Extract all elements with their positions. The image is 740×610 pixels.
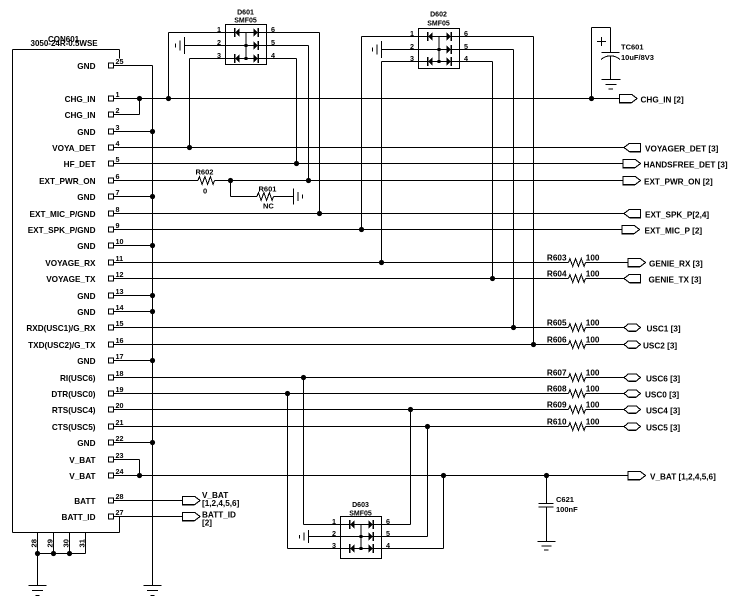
svg-text:GND: GND — [77, 62, 95, 71]
svg-text:BATT: BATT — [74, 497, 95, 506]
svg-text:USC5 [3]: USC5 [3] — [646, 424, 680, 433]
svg-text:VOYAGE_TX: VOYAGE_TX — [46, 275, 96, 284]
svg-text:CHG_IN: CHG_IN — [65, 111, 96, 120]
svg-text:CTS(USC5): CTS(USC5) — [52, 423, 96, 432]
svg-text:100: 100 — [586, 336, 600, 345]
svg-text:USC1 [3]: USC1 [3] — [647, 325, 681, 334]
svg-text:EXT_PWR_ON: EXT_PWR_ON — [39, 177, 96, 186]
svg-text:31: 31 — [78, 538, 87, 547]
svg-text:100nF: 100nF — [556, 505, 578, 514]
svg-text:V_BAT: V_BAT — [69, 472, 95, 481]
svg-text:100: 100 — [586, 401, 600, 410]
svg-text:GND: GND — [77, 128, 95, 137]
svg-text:V_BAT [1,2,4,5,6]: V_BAT [1,2,4,5,6] — [650, 473, 716, 482]
svg-text:1: 1 — [116, 90, 120, 99]
svg-text:[1,2,4,5,6]: [1,2,4,5,6] — [202, 499, 240, 508]
svg-text:10uF/8V3: 10uF/8V3 — [621, 53, 654, 62]
svg-text:1: 1 — [332, 517, 336, 526]
svg-text:5: 5 — [271, 38, 275, 47]
svg-text:3050-24R-0.5WSE: 3050-24R-0.5WSE — [31, 39, 99, 48]
svg-text:3: 3 — [217, 51, 221, 60]
svg-text:5: 5 — [386, 529, 390, 538]
svg-text:3: 3 — [410, 54, 414, 63]
svg-text:EXT_SPK_P/GND: EXT_SPK_P/GND — [28, 226, 96, 235]
svg-text:0: 0 — [203, 187, 207, 196]
svg-text:R610: R610 — [547, 418, 567, 427]
svg-text:100: 100 — [586, 418, 600, 427]
svg-text:24: 24 — [116, 467, 124, 476]
svg-text:R605: R605 — [547, 319, 567, 328]
svg-text:GENIE_TX [3]: GENIE_TX [3] — [649, 276, 702, 285]
svg-text:VOYAGE_RX: VOYAGE_RX — [45, 259, 96, 268]
svg-text:15: 15 — [116, 319, 124, 328]
svg-text:R606: R606 — [547, 336, 567, 345]
svg-text:29: 29 — [46, 539, 55, 547]
svg-text:R609: R609 — [547, 401, 567, 410]
svg-text:100: 100 — [586, 270, 600, 279]
svg-text:1: 1 — [217, 25, 221, 34]
svg-text:2: 2 — [116, 106, 120, 115]
svg-text:USC4 [3]: USC4 [3] — [646, 407, 680, 416]
svg-text:HANDSFREE_DET [3]: HANDSFREE_DET [3] — [644, 161, 728, 170]
svg-text:TC601: TC601 — [621, 43, 644, 52]
svg-text:5: 5 — [464, 42, 468, 51]
svg-text:CHG_IN [2]: CHG_IN [2] — [641, 96, 684, 105]
svg-text:USC0 [3]: USC0 [3] — [645, 391, 679, 400]
svg-text:2: 2 — [332, 529, 336, 538]
svg-text:VOYAGER_DET [3]: VOYAGER_DET [3] — [645, 145, 719, 154]
svg-text:4: 4 — [464, 54, 468, 63]
svg-text:8: 8 — [116, 205, 120, 214]
svg-text:R603: R603 — [547, 254, 567, 263]
svg-text:EXT_SPK_P[2,4]: EXT_SPK_P[2,4] — [645, 211, 709, 220]
svg-text:HF_DET: HF_DET — [64, 160, 96, 169]
svg-text:R607: R607 — [547, 369, 567, 378]
svg-text:19: 19 — [116, 385, 124, 394]
svg-text:4: 4 — [271, 51, 275, 60]
svg-text:3: 3 — [116, 123, 120, 132]
svg-text:2: 2 — [217, 38, 221, 47]
svg-text:7: 7 — [116, 188, 120, 197]
svg-text:30: 30 — [62, 539, 71, 547]
svg-text:RI(USC6): RI(USC6) — [60, 374, 96, 383]
svg-text:R604: R604 — [547, 270, 567, 279]
svg-text:GND: GND — [77, 242, 95, 251]
svg-text:100: 100 — [586, 369, 600, 378]
svg-text:6: 6 — [464, 29, 468, 38]
svg-text:12: 12 — [116, 270, 124, 279]
svg-text:14: 14 — [116, 303, 124, 312]
svg-text:25: 25 — [116, 57, 124, 66]
svg-text:16: 16 — [116, 336, 124, 345]
svg-text:GND: GND — [77, 439, 95, 448]
svg-text:4: 4 — [386, 541, 390, 550]
svg-text:17: 17 — [116, 352, 124, 361]
svg-text:D602: D602 — [430, 12, 447, 19]
svg-text:SMF05: SMF05 — [234, 18, 257, 25]
svg-text:EXT_MIC_P [2]: EXT_MIC_P [2] — [645, 227, 703, 236]
svg-text:TXD(USC2)/G_TX: TXD(USC2)/G_TX — [28, 341, 96, 350]
svg-text:R602: R602 — [196, 168, 214, 177]
svg-text:11: 11 — [116, 254, 124, 263]
svg-text:NC: NC — [263, 202, 274, 211]
svg-text:23: 23 — [116, 451, 124, 460]
svg-text:GND: GND — [77, 308, 95, 317]
svg-text:SMF05: SMF05 — [427, 21, 450, 28]
svg-text:4: 4 — [116, 139, 120, 148]
svg-text:EXT_MIC_P/GND: EXT_MIC_P/GND — [30, 210, 96, 219]
svg-text:D603: D603 — [352, 502, 369, 509]
svg-text:[2]: [2] — [202, 519, 212, 528]
svg-text:GENIE_RX [3]: GENIE_RX [3] — [649, 260, 703, 269]
svg-text:6: 6 — [116, 172, 120, 181]
svg-text:DTR(USC0): DTR(USC0) — [51, 390, 95, 399]
svg-text:GND: GND — [77, 193, 95, 202]
svg-text:22: 22 — [116, 434, 124, 443]
svg-text:V_BAT: V_BAT — [69, 456, 95, 465]
svg-text:VOYA_DET: VOYA_DET — [52, 144, 95, 153]
svg-text:GND: GND — [77, 292, 95, 301]
svg-text:R601: R601 — [259, 185, 277, 194]
svg-text:USC6 [3]: USC6 [3] — [646, 375, 680, 384]
svg-text:R608: R608 — [547, 385, 567, 394]
svg-text:100: 100 — [586, 385, 600, 394]
svg-text:28: 28 — [116, 492, 124, 501]
svg-text:RXD(USC1)/G_RX: RXD(USC1)/G_RX — [26, 324, 96, 333]
svg-text:3: 3 — [332, 541, 336, 550]
svg-text:RTS(USC4): RTS(USC4) — [52, 406, 96, 415]
svg-text:D601: D601 — [237, 10, 254, 17]
svg-text:USC2 [3]: USC2 [3] — [643, 342, 677, 351]
svg-text:21: 21 — [116, 418, 124, 427]
svg-text:9: 9 — [116, 221, 120, 230]
svg-text:20: 20 — [116, 401, 124, 410]
svg-text:BATT_ID: BATT_ID — [62, 513, 96, 522]
svg-text:GND: GND — [77, 357, 95, 366]
svg-text:CHG_IN: CHG_IN — [65, 95, 96, 104]
svg-text:10: 10 — [116, 237, 124, 246]
svg-text:100: 100 — [586, 254, 600, 263]
svg-text:C621: C621 — [556, 495, 574, 504]
svg-text:18: 18 — [116, 369, 124, 378]
svg-text:1: 1 — [410, 29, 414, 38]
svg-text:13: 13 — [116, 287, 124, 296]
svg-text:SMF05: SMF05 — [349, 511, 372, 518]
svg-text:6: 6 — [386, 517, 390, 526]
svg-text:27: 27 — [116, 508, 124, 517]
svg-text:6: 6 — [271, 25, 275, 34]
svg-text:100: 100 — [586, 319, 600, 328]
svg-text:2: 2 — [410, 42, 414, 51]
svg-text:28: 28 — [30, 539, 39, 547]
svg-text:EXT_PWR_ON [2]: EXT_PWR_ON [2] — [644, 178, 713, 187]
svg-text:5: 5 — [116, 155, 120, 164]
